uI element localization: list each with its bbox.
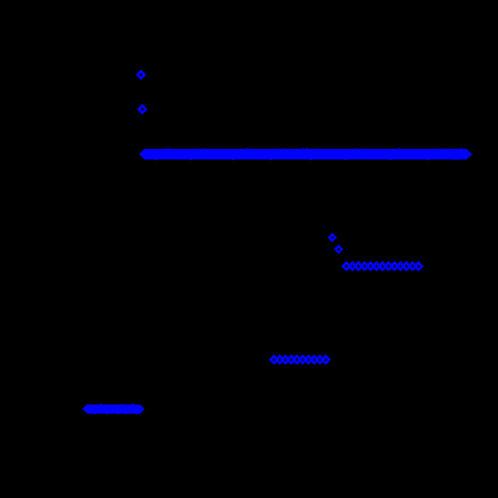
- data point (142.3,109.2): [139, 106, 146, 113]
- dense data run y=154 (overlapping diamond markers): [139, 148, 472, 161]
- data point (332.3,237.5): [329, 234, 335, 240]
- data point (338.6,249.2): [336, 246, 342, 252]
- data chain y=360: [271, 356, 330, 363]
- data chain y=266: [343, 263, 422, 270]
- data point (141,74.7): [138, 71, 145, 78]
- dense data run y=409 (overlapping diamond markers): [82, 403, 144, 415]
